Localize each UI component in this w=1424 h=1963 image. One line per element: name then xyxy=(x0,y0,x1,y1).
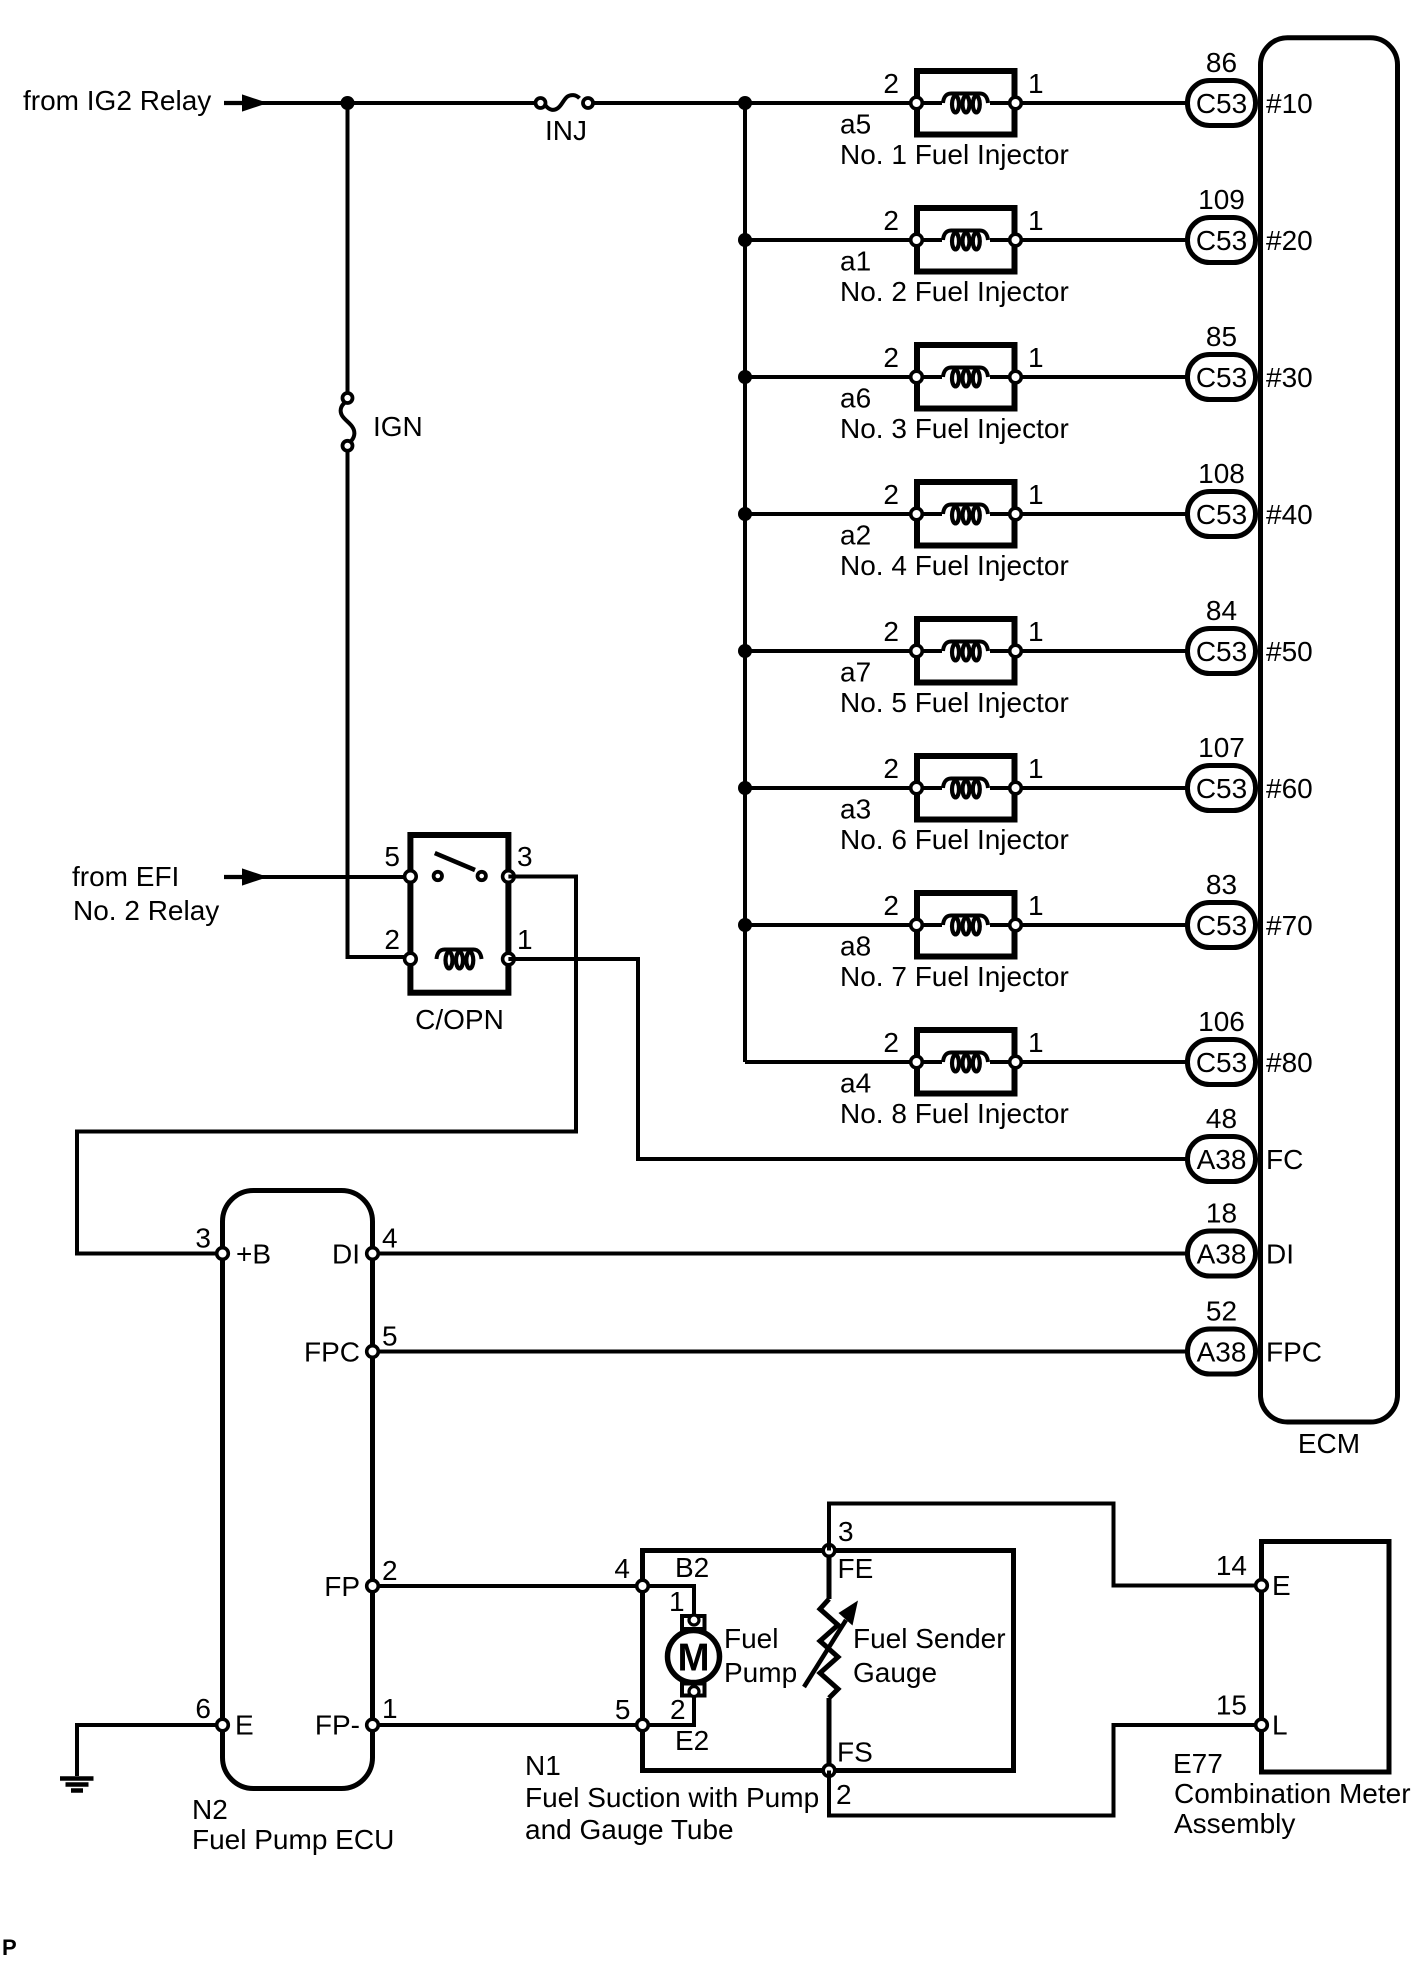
svg-text:#70: #70 xyxy=(1266,910,1313,941)
N2 pin 3 label xyxy=(195,1223,211,1254)
injector a5 designator xyxy=(840,109,871,140)
svg-text:N1: N1 xyxy=(525,1750,561,1781)
injector a1 name xyxy=(840,276,1069,307)
N1 pin 3 label xyxy=(838,1516,854,1547)
injector a5 pin 1 label xyxy=(1028,68,1044,99)
injector a7 body (No. 5 Fuel Injector) xyxy=(917,619,1015,683)
N2 pin 3 (+B) xyxy=(217,1248,229,1260)
connector C53 row 3 label xyxy=(1196,362,1247,393)
svg-text:4: 4 xyxy=(382,1223,398,1254)
wire coil to injector a2 pin1 xyxy=(990,512,1016,516)
ECM pin #70 label xyxy=(1266,910,1313,941)
fuel pump motor bottom cap xyxy=(682,1684,705,1696)
injector a7 name xyxy=(840,687,1069,718)
E77 pin 14 (E) xyxy=(1256,1580,1268,1592)
fuse INJ xyxy=(536,95,594,110)
relay C/OPN switch contact left xyxy=(434,872,442,880)
junction bus row 2 xyxy=(738,233,752,247)
svg-text:#80: #80 xyxy=(1266,1047,1313,1078)
injector a6 coil xyxy=(943,368,988,387)
connector C53 row 3 pin number 85 xyxy=(1206,321,1237,352)
connector C53 row 1 pin number 86 xyxy=(1206,47,1237,78)
wire coil to injector a6 pin1 xyxy=(990,375,1016,379)
injector a8 pin 1 xyxy=(1010,919,1022,931)
injector a2 pin 1 xyxy=(1010,508,1022,520)
arrow from IG2 Relay xyxy=(224,94,268,111)
N2 pin 5 (FPC) xyxy=(367,1346,379,1358)
svg-text:a4: a4 xyxy=(840,1068,871,1099)
injector a8 pin 2 label xyxy=(883,890,899,921)
connector C53 row 1 xyxy=(1188,81,1256,126)
N2 E label xyxy=(235,1710,254,1741)
connector C53 row 2 pin number 109 xyxy=(1198,184,1245,215)
svg-text:A38: A38 xyxy=(1197,1337,1247,1368)
wire injector a8 to connector C53 xyxy=(1021,923,1188,927)
svg-text:#20: #20 xyxy=(1266,225,1313,256)
wire N1 pin4 to fuel pump motor xyxy=(643,1586,695,1615)
N1 FS label xyxy=(837,1737,873,1768)
connector C53 row 5 label xyxy=(1196,636,1247,667)
N1 B2 label xyxy=(675,1552,709,1583)
svg-text:1: 1 xyxy=(517,924,533,955)
svg-text:Gauge: Gauge xyxy=(853,1657,937,1688)
fuel pump motor body xyxy=(668,1631,720,1683)
ECM body xyxy=(1261,38,1398,1422)
svg-text:E: E xyxy=(1272,1570,1291,1601)
injector a7 pin 2 xyxy=(911,645,923,657)
relay C/OPN pin 5 label xyxy=(384,841,400,872)
svg-text:Assembly: Assembly xyxy=(1174,1808,1295,1839)
N2 +B label xyxy=(236,1239,271,1270)
injector a5 name xyxy=(840,139,1069,170)
svg-text:Fuel Pump ECU: Fuel Pump ECU xyxy=(192,1824,394,1855)
injector a2 name xyxy=(840,550,1069,581)
fuel suction unit N1 body xyxy=(643,1551,1014,1771)
wire coil to injector a5 pin1 xyxy=(990,101,1016,105)
svg-text:a7: a7 xyxy=(840,657,871,688)
svg-text:2: 2 xyxy=(883,205,899,236)
junction bus top xyxy=(738,96,752,110)
wire IGN branch lower xyxy=(348,452,411,960)
injector a4 pin 1 xyxy=(1010,1056,1022,1068)
injector a6 name xyxy=(840,413,1069,444)
wire coil to injector a7 pin1 xyxy=(990,649,1016,653)
N1 pin FE (3) xyxy=(823,1545,835,1557)
wire fuse INJ to bus xyxy=(593,101,745,105)
svg-text:#40: #40 xyxy=(1266,499,1313,530)
injector a6 pin 2 xyxy=(911,371,923,383)
injector a5 body (No. 1 Fuel Injector) xyxy=(917,71,1015,135)
relay C/OPN pin 3 xyxy=(503,871,515,883)
injector a3 pin 1 xyxy=(1010,782,1022,794)
svg-text:2: 2 xyxy=(836,1779,852,1810)
wire injector a6 to connector C53 xyxy=(1021,375,1188,379)
E77 E label xyxy=(1272,1570,1291,1601)
junction bus row 4 xyxy=(738,507,752,521)
svg-text:a1: a1 xyxy=(840,246,871,277)
svg-text:2: 2 xyxy=(883,479,899,510)
svg-text:4: 4 xyxy=(614,1553,630,1584)
svg-text:B2: B2 xyxy=(675,1552,709,1583)
ECM pin #50 label xyxy=(1266,636,1313,667)
relay C/OPN pin 1 xyxy=(503,953,515,965)
connector C53 row 8 pin number 106 xyxy=(1198,1006,1245,1037)
connector C53 row 2 xyxy=(1188,218,1256,263)
svg-text:A38: A38 xyxy=(1197,1239,1247,1270)
svg-text:IGN: IGN xyxy=(373,411,423,442)
svg-text:2: 2 xyxy=(883,68,899,99)
connector C53 row 7 xyxy=(1188,903,1256,948)
svg-text:85: 85 xyxy=(1206,321,1237,352)
svg-text:No. 3 Fuel Injector: No. 3 Fuel Injector xyxy=(840,413,1069,444)
connector A38 FC pin number 48 xyxy=(1206,1103,1237,1134)
svg-text:No. 2 Relay: No. 2 Relay xyxy=(73,895,219,926)
wire FE to combination meter E xyxy=(829,1504,1256,1586)
wire N2 FP to N1 pin 4 xyxy=(379,1584,643,1588)
wire EFI feed to C/OPN pin 5 xyxy=(250,875,410,879)
svg-text:1: 1 xyxy=(1028,68,1044,99)
E77 pin 15 (L) xyxy=(1256,1719,1268,1731)
svg-text:3: 3 xyxy=(195,1223,211,1254)
N2 pin 1 label xyxy=(382,1693,398,1724)
N2 pin 2 (FP) xyxy=(367,1580,379,1592)
wire injector a4 to connector C53 xyxy=(1021,1060,1188,1064)
svg-text:15: 15 xyxy=(1216,1690,1247,1721)
connector C53 row 8 xyxy=(1188,1040,1256,1085)
N2 FPC label xyxy=(304,1337,360,1368)
svg-text:ECM: ECM xyxy=(1298,1428,1360,1459)
svg-text:C53: C53 xyxy=(1196,499,1247,530)
N2 pin 4 label xyxy=(382,1223,398,1254)
svg-text:FC: FC xyxy=(1266,1144,1303,1175)
svg-text:DI: DI xyxy=(1266,1239,1294,1270)
svg-text:L: L xyxy=(1272,1710,1288,1741)
svg-text:C53: C53 xyxy=(1196,88,1247,119)
injector a4 body (No. 8 Fuel Injector) xyxy=(917,1030,1015,1094)
svg-text:from EFI: from EFI xyxy=(72,861,179,892)
svg-text:C53: C53 xyxy=(1196,773,1247,804)
svg-text:3: 3 xyxy=(838,1516,854,1547)
wire fuel pump motor to N1 pin5 xyxy=(649,1697,695,1725)
injector a7 pin 2 label xyxy=(883,616,899,647)
relay C/OPN body xyxy=(410,835,508,993)
injector a4 pin 2 xyxy=(911,1056,923,1068)
svg-text:C53: C53 xyxy=(1196,636,1247,667)
svg-text:1: 1 xyxy=(1028,616,1044,647)
fuse IGN xyxy=(341,393,355,451)
connector C53 row 1 label xyxy=(1196,88,1247,119)
injector a8 pin 2 xyxy=(911,919,923,931)
injector a6 designator xyxy=(840,383,871,414)
junction IGN branch xyxy=(341,96,355,110)
connector C53 row 4 label xyxy=(1196,499,1247,530)
injector a2 pin 2 label xyxy=(883,479,899,510)
wire bus to injector row 3 xyxy=(745,375,911,379)
wire coil to injector a1 pin1 xyxy=(990,238,1016,242)
injector a1 pin 2 label xyxy=(883,205,899,236)
svg-text:No. 4 Fuel Injector: No. 4 Fuel Injector xyxy=(840,550,1069,581)
svg-text:2: 2 xyxy=(883,1027,899,1058)
relay C/OPN pin 5 xyxy=(405,871,417,883)
connector C53 row 5 pin number 84 xyxy=(1206,595,1237,626)
svg-text:5: 5 xyxy=(382,1321,398,1352)
svg-text:No. 8 Fuel Injector: No. 8 Fuel Injector xyxy=(840,1098,1069,1129)
svg-text:2: 2 xyxy=(883,342,899,373)
svg-text:107: 107 xyxy=(1198,732,1245,763)
svg-text:52: 52 xyxy=(1206,1296,1237,1327)
injector a1 pin 2 xyxy=(911,234,923,246)
svg-text:a6: a6 xyxy=(840,383,871,414)
wire injector a3 to connector C53 xyxy=(1021,786,1188,790)
injector a3 coil xyxy=(943,779,988,798)
svg-text:2: 2 xyxy=(382,1555,398,1586)
injector a2 pin 2 xyxy=(911,508,923,520)
N1 motor pin 2 label xyxy=(670,1694,686,1725)
E77 designator xyxy=(1173,1748,1223,1779)
connector A38 DI pin number 18 xyxy=(1206,1198,1237,1229)
injector a2 body (No. 4 Fuel Injector) xyxy=(917,482,1015,546)
E77 name xyxy=(1174,1778,1411,1839)
connector C53 row 4 pin number 108 xyxy=(1198,458,1245,489)
svg-text:C53: C53 xyxy=(1196,362,1247,393)
net from IG2 Relay label xyxy=(23,85,211,116)
fuse INJ label xyxy=(545,115,587,146)
ECM pin #20 label xyxy=(1266,225,1313,256)
fuel pump motor terminal 1 xyxy=(689,1615,699,1625)
relay C/OPN pin 2 xyxy=(405,953,417,965)
svg-text:No. 5 Fuel Injector: No. 5 Fuel Injector xyxy=(840,687,1069,718)
svg-text:FP-: FP- xyxy=(315,1710,360,1741)
fuel sender gauge name xyxy=(853,1623,1006,1688)
injector a5 pin 1 xyxy=(1010,97,1022,109)
injector a4 designator xyxy=(840,1068,871,1099)
wire bus to injector row 6 xyxy=(745,786,911,790)
svg-text:2: 2 xyxy=(883,890,899,921)
wire N2 E to ground xyxy=(77,1725,217,1776)
svg-text:1: 1 xyxy=(669,1586,685,1617)
connector C53 row 3 xyxy=(1188,355,1256,400)
relay C/OPN switch blade xyxy=(435,853,475,870)
relay C/OPN pin 1 label xyxy=(517,924,533,955)
wire FS to combination meter L xyxy=(829,1725,1256,1816)
wire C/OPN pin 1 to ECM FC xyxy=(508,959,1187,1159)
connector C53 row 7 pin number 83 xyxy=(1206,869,1237,900)
injector a5 pin 2 label xyxy=(883,68,899,99)
E77 pin 14 label xyxy=(1216,1550,1247,1581)
svg-text:83: 83 xyxy=(1206,869,1237,900)
wire coil to injector a4 pin1 xyxy=(990,1060,1016,1064)
fuel sender gauge resistor xyxy=(820,1599,838,1771)
svg-text:FE: FE xyxy=(838,1553,874,1584)
injector a4 pin 1 label xyxy=(1028,1027,1044,1058)
wire injector a6 pin2 to coil xyxy=(917,375,943,379)
svg-text:2: 2 xyxy=(384,924,400,955)
net from EFI No. 2 Relay label xyxy=(72,861,219,926)
injector a2 coil xyxy=(943,505,988,524)
svg-text:FPC: FPC xyxy=(304,1337,360,1368)
injector a7 pin 1 label xyxy=(1028,616,1044,647)
N1 pin 2 label (FS) xyxy=(836,1779,852,1810)
N2 pin 6 label xyxy=(195,1693,211,1724)
relay C/OPN pin 3 label xyxy=(517,841,533,872)
svg-text:No. 6 Fuel Injector: No. 6 Fuel Injector xyxy=(840,824,1069,855)
wire injector a2 to connector C53 xyxy=(1021,512,1188,516)
fuel pump motor M label xyxy=(677,1637,709,1680)
wire injector supply bus vertical xyxy=(743,103,747,1062)
svg-text:from IG2 Relay: from IG2 Relay xyxy=(23,85,211,116)
wire injector a7 pin2 to coil xyxy=(917,649,943,653)
relay C/OPN coil xyxy=(437,950,482,969)
svg-text:6: 6 xyxy=(195,1693,211,1724)
junction bus row 5 xyxy=(738,644,752,658)
wire coil to injector a3 pin1 xyxy=(990,786,1016,790)
N2 FP label xyxy=(324,1571,360,1602)
injector a3 name xyxy=(840,824,1069,855)
N2 DI label xyxy=(332,1239,360,1270)
N1 pin 4 label xyxy=(614,1553,630,1584)
N1 E2 label xyxy=(675,1725,709,1756)
N1 pin 4 xyxy=(637,1580,649,1592)
junction bus row 6 xyxy=(738,781,752,795)
wire FE to sender resistor xyxy=(827,1551,832,1600)
svg-text:FP: FP xyxy=(324,1571,360,1602)
connector C53 row 8 label xyxy=(1196,1047,1247,1078)
svg-text:and Gauge Tube: and Gauge Tube xyxy=(525,1814,734,1845)
svg-text:E: E xyxy=(235,1710,254,1741)
N2 designator xyxy=(192,1794,228,1825)
connector C53 row 4 xyxy=(1188,492,1256,537)
combination meter E77 body xyxy=(1262,1542,1390,1773)
svg-text:DI: DI xyxy=(332,1239,360,1270)
svg-text:1: 1 xyxy=(1028,479,1044,510)
connector C53 row 5 xyxy=(1188,629,1256,674)
injector a5 coil xyxy=(943,94,988,113)
ECM pin #10 label xyxy=(1266,88,1313,119)
fuel pump name xyxy=(724,1623,797,1688)
wire bus to injector row 8 xyxy=(745,1060,911,1064)
connector C53 row 2 label xyxy=(1196,225,1247,256)
svg-text:No. 2 Fuel Injector: No. 2 Fuel Injector xyxy=(840,276,1069,307)
wire bus to injector row 4 xyxy=(745,512,911,516)
svg-text:No. 7 Fuel Injector: No. 7 Fuel Injector xyxy=(840,961,1069,992)
connector A38 FPC xyxy=(1188,1329,1256,1374)
injector a6 pin 2 label xyxy=(883,342,899,373)
svg-text:5: 5 xyxy=(384,841,400,872)
wire C/OPN pin 3 to fuel pump ECU +B xyxy=(77,877,576,1254)
svg-text:3: 3 xyxy=(517,841,533,872)
connector C53 row 6 pin number 107 xyxy=(1198,732,1245,763)
wire injector a1 pin2 to coil xyxy=(917,238,943,242)
wire injector a7 to connector C53 xyxy=(1021,649,1188,653)
wire injector a5 to connector C53 xyxy=(1021,101,1188,105)
ECM pin #30 label xyxy=(1266,362,1313,393)
E77 L label xyxy=(1272,1710,1288,1741)
svg-text:FPC: FPC xyxy=(1266,1337,1322,1368)
svg-text:Pump: Pump xyxy=(724,1657,797,1688)
junction bus row 7 xyxy=(738,918,752,932)
wire injector a5 pin2 to coil xyxy=(917,101,943,105)
svg-text:2: 2 xyxy=(670,1694,686,1725)
N2 pin 2 label xyxy=(382,1555,398,1586)
svg-text:1: 1 xyxy=(1028,753,1044,784)
N1 pin 5 label xyxy=(615,1694,631,1725)
ECM pin #60 label xyxy=(1266,773,1313,804)
injector a3 pin 1 label xyxy=(1028,753,1044,784)
relay C/OPN pin 2 label xyxy=(384,924,400,955)
svg-text:5: 5 xyxy=(615,1694,631,1725)
junction bus row 3 xyxy=(738,370,752,384)
injector a5 pin 2 xyxy=(911,97,923,109)
ground symbol xyxy=(60,1779,94,1791)
svg-text:18: 18 xyxy=(1206,1198,1237,1229)
N1 FE label xyxy=(838,1553,874,1584)
N1 pin 5 xyxy=(637,1719,649,1731)
svg-text:84: 84 xyxy=(1206,595,1237,626)
injector a3 pin 2 xyxy=(911,782,923,794)
injector a1 designator xyxy=(840,246,871,277)
wire bus to injector row 5 xyxy=(745,649,911,653)
svg-text:#50: #50 xyxy=(1266,636,1313,667)
svg-text:1: 1 xyxy=(382,1693,398,1724)
injector a8 designator xyxy=(840,931,871,962)
injector a3 body (No. 6 Fuel Injector) xyxy=(917,756,1015,820)
svg-text:No. 1 Fuel Injector: No. 1 Fuel Injector xyxy=(840,139,1069,170)
injector a8 name xyxy=(840,961,1069,992)
svg-text:a5: a5 xyxy=(840,109,871,140)
E77 pin 15 label xyxy=(1216,1690,1247,1721)
svg-text:Fuel: Fuel xyxy=(724,1623,778,1654)
svg-text:1: 1 xyxy=(1028,890,1044,921)
connector A38 DI label xyxy=(1197,1239,1247,1270)
svg-text:#30: #30 xyxy=(1266,362,1313,393)
svg-text:109: 109 xyxy=(1198,184,1245,215)
wire bus to injector row 1 xyxy=(745,101,911,105)
svg-text:108: 108 xyxy=(1198,458,1245,489)
svg-text:Fuel Suction with Pump: Fuel Suction with Pump xyxy=(525,1782,819,1813)
svg-text:FS: FS xyxy=(837,1737,873,1768)
wire injector a4 pin2 to coil xyxy=(917,1060,943,1064)
connector A38 FC label xyxy=(1197,1144,1247,1175)
fuel pump ECU N2 body xyxy=(223,1191,373,1789)
arrow from EFI No. 2 Relay xyxy=(224,868,268,885)
injector a6 pin 1 label xyxy=(1028,342,1044,373)
ECM pin #80 label xyxy=(1266,1047,1313,1078)
svg-text:A38: A38 xyxy=(1197,1144,1247,1175)
injector a7 coil xyxy=(943,642,988,661)
injector a1 pin 1 label xyxy=(1028,205,1044,236)
wire bus to injector row 7 xyxy=(745,923,911,927)
wire coil to injector a8 pin1 xyxy=(990,923,1016,927)
svg-text:a2: a2 xyxy=(840,520,871,551)
injector a8 coil xyxy=(943,916,988,935)
wire N2 FPC to ECM FPC xyxy=(379,1350,1188,1354)
svg-text:1: 1 xyxy=(1028,342,1044,373)
svg-text:a8: a8 xyxy=(840,931,871,962)
svg-text:N2: N2 xyxy=(192,1794,228,1825)
N2 pin 5 label xyxy=(382,1321,398,1352)
N2 pin 4 (DI) xyxy=(367,1248,379,1260)
wire injector a3 pin2 to coil xyxy=(917,786,943,790)
svg-text:48: 48 xyxy=(1206,1103,1237,1134)
svg-text:P: P xyxy=(2,1935,17,1960)
injector a8 body (No. 7 Fuel Injector) xyxy=(917,893,1015,957)
injector a6 body (No. 3 Fuel Injector) xyxy=(917,345,1015,409)
svg-text:a3: a3 xyxy=(840,794,871,825)
svg-text:14: 14 xyxy=(1216,1550,1247,1581)
svg-text:C/OPN: C/OPN xyxy=(415,1004,504,1035)
wire bus to injector row 2 xyxy=(745,238,911,242)
svg-text:C53: C53 xyxy=(1196,910,1247,941)
